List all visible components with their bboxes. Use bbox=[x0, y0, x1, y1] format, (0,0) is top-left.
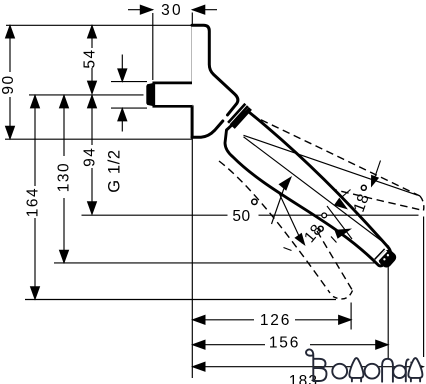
dimension 156 bbox=[193, 344, 266, 346]
dashed lower position right edge bbox=[317, 231, 353, 291]
svg-text:94: 94 bbox=[82, 147, 99, 167]
hose connector end cap bbox=[375, 249, 385, 259]
tick 18 upper bbox=[343, 190, 351, 197]
svg-text:54: 54 bbox=[82, 48, 99, 68]
dashed upper position top edge bbox=[250, 115, 420, 197]
svg-text:30: 30 bbox=[161, 2, 183, 19]
wire extension line x=152.8 (30 dim) bbox=[152, 13, 154, 80]
watermark letter o 2 bbox=[365, 364, 380, 379]
watermark letter d 2 bbox=[408, 358, 422, 378]
watermark letter d bbox=[349, 358, 363, 378]
leader 18 lower upper shaft bbox=[272, 181, 287, 224]
arrow 18 lower second bbox=[294, 233, 305, 246]
dimension 126 bbox=[193, 319, 255, 321]
wire extension x=388 (156 dim) bbox=[387, 263, 389, 359]
wire body bottom line y=139 bbox=[5, 138, 192, 140]
wire top reference line y=25 bbox=[6, 24, 192, 26]
svg-text:90: 90 bbox=[0, 74, 17, 94]
leader 18 lower lower shaft bbox=[279, 193, 303, 244]
thread block bbox=[146, 83, 154, 106]
ray along head axis bbox=[244, 137, 390, 247]
watermark letter o bbox=[332, 364, 347, 379]
wire line y=263 (130 dim) bbox=[54, 262, 376, 264]
node angle vertex circle bbox=[322, 213, 327, 218]
dashed upper position end cap bbox=[420, 196, 424, 211]
arrow at raised axis (50 deg) bbox=[371, 175, 379, 188]
hand shower head bbox=[225, 112, 390, 266]
svg-text:126: 126 bbox=[260, 312, 291, 329]
leader 50 arrow shaft bbox=[374, 161, 381, 182]
ray to raised position bbox=[244, 135, 418, 195]
dimension 130 shaft bbox=[63, 95, 65, 156]
label G 1/2 leader arrows bbox=[121, 55, 123, 70]
dimension 54 / 94 shaft bbox=[91, 26, 93, 49]
dimension 90 shaft bbox=[9, 26, 11, 73]
tick 18 lower tail bbox=[284, 248, 292, 251]
holder body fill bbox=[192, 25, 238, 137]
wire line y=299.5 (164 dim) bbox=[25, 299, 336, 301]
watermark letter a bbox=[393, 365, 406, 378]
holder body outline bbox=[192, 25, 238, 137]
watermark letter V (stylized B with swan curl) bbox=[306, 349, 326, 381]
wire stub top extension y=81.9 bbox=[111, 81, 147, 83]
arrow 18 upper first bbox=[334, 198, 348, 210]
svg-text:G 1/2: G 1/2 bbox=[105, 149, 123, 192]
dashed upper position bottom edge bbox=[330, 189, 424, 211]
dashed lower position end cap bbox=[333, 291, 353, 299]
wire extension x=351 (126 dim) bbox=[350, 303, 352, 330]
wire line y=215 over head bbox=[82, 214, 228, 216]
svg-text:50: 50 bbox=[232, 208, 250, 225]
dimension 30 lines bbox=[128, 9, 153, 11]
connector stub G1/2 bbox=[154, 83, 193, 106]
wire wall reference line x=192 bbox=[191, 13, 193, 379]
swivel joint rings bbox=[228, 104, 250, 128]
wire stub centerline y=95 bbox=[29, 94, 144, 96]
svg-text:130: 130 bbox=[56, 162, 73, 192]
dimension 164 shaft bbox=[34, 95, 36, 186]
wire stub bottom extension y=108.3 bbox=[111, 107, 147, 109]
wire extension x=424 (183 dim) bbox=[423, 217, 425, 358]
arrow 18 lower first bbox=[279, 176, 293, 191]
svg-text:164: 164 bbox=[25, 187, 42, 217]
svg-text:156: 156 bbox=[269, 335, 300, 352]
leader line through vertex bbox=[327, 206, 352, 239]
watermark letter p bbox=[382, 359, 393, 382]
arrow 18 upper second bbox=[334, 229, 352, 239]
dimension 183 bbox=[193, 366, 424, 368]
dashed lower position left edge bbox=[219, 161, 330, 293]
